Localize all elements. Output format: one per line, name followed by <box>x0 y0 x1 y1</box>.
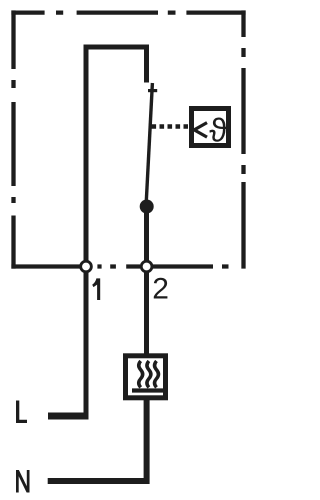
svg-text:2: 2 <box>152 273 169 306</box>
svg-text:ϑ: ϑ <box>209 112 227 149</box>
